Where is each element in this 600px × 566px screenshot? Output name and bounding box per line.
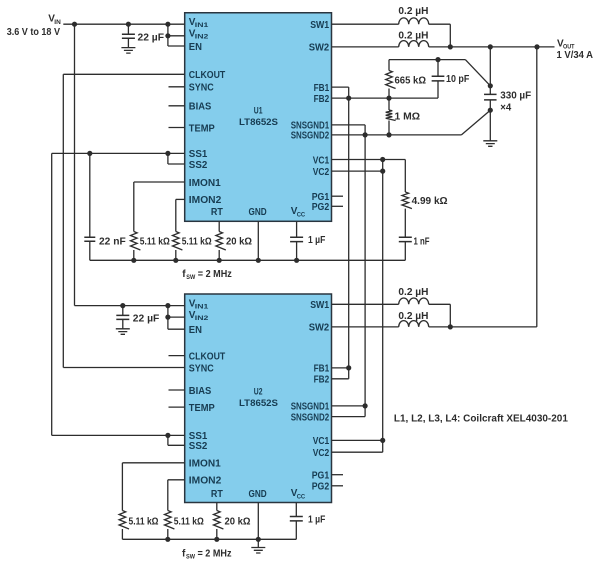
svg-text:SYNC: SYNC xyxy=(189,363,214,374)
svg-text:SW: SW xyxy=(186,274,195,281)
svg-text:FB1: FB1 xyxy=(314,364,330,375)
svg-text:3.6 V to 18 V: 3.6 V to 18 V xyxy=(7,27,61,38)
svg-text:1 V/34 A: 1 V/34 A xyxy=(557,50,594,61)
svg-text:CC: CC xyxy=(297,493,306,500)
svg-text:IN2: IN2 xyxy=(195,315,209,322)
svg-text:IMON1: IMON1 xyxy=(189,459,221,470)
svg-text:5.11 kΩ: 5.11 kΩ xyxy=(174,516,204,527)
svg-text:665 kΩ: 665 kΩ xyxy=(395,76,427,87)
svg-text:0.2 µH: 0.2 µH xyxy=(398,311,428,322)
svg-text:FB1: FB1 xyxy=(314,83,330,94)
svg-text:LT8652S: LT8652S xyxy=(239,398,278,408)
svg-text:PG1: PG1 xyxy=(312,471,330,482)
svg-text:5.11 kΩ: 5.11 kΩ xyxy=(129,516,159,527)
svg-text:TEMP: TEMP xyxy=(189,123,215,134)
svg-text:IN1: IN1 xyxy=(195,304,209,311)
svg-text:RT: RT xyxy=(211,207,223,218)
svg-text:SW2: SW2 xyxy=(309,43,330,54)
svg-text:1 nF: 1 nF xyxy=(414,237,430,248)
svg-text:4.99 kΩ: 4.99 kΩ xyxy=(412,196,448,207)
svg-text:FB2: FB2 xyxy=(314,94,330,105)
svg-text:0.2 µH: 0.2 µH xyxy=(398,287,428,298)
svg-text:1 µF: 1 µF xyxy=(308,514,325,525)
svg-text:SYNC: SYNC xyxy=(189,83,214,94)
svg-text:PG2: PG2 xyxy=(312,202,330,213)
svg-text:GND: GND xyxy=(249,489,267,500)
svg-text:SW1: SW1 xyxy=(310,300,329,311)
svg-text:SNSGND2: SNSGND2 xyxy=(291,131,330,142)
svg-text:10 pF: 10 pF xyxy=(446,74,469,85)
svg-text:IMON1: IMON1 xyxy=(189,178,221,189)
svg-text:SW1: SW1 xyxy=(310,20,329,31)
svg-text:VC1: VC1 xyxy=(313,436,330,447)
svg-text:330 µF: 330 µF xyxy=(500,91,531,102)
svg-text:EN: EN xyxy=(189,325,202,336)
svg-text:BIAS: BIAS xyxy=(189,102,212,113)
svg-text:SNSGND2: SNSGND2 xyxy=(291,412,330,423)
svg-text:L1, L2, L3, L4: Coilcraft XEL4: L1, L2, L3, L4: Coilcraft XEL4030-201 xyxy=(394,413,568,424)
svg-text:IN1: IN1 xyxy=(195,22,209,29)
svg-text:SS2: SS2 xyxy=(189,160,208,171)
svg-text:22 µF: 22 µF xyxy=(133,314,160,325)
svg-text:LT8652S: LT8652S xyxy=(239,117,278,127)
svg-text:FB2: FB2 xyxy=(314,375,330,386)
svg-text:RT: RT xyxy=(211,489,223,500)
svg-text:IN2: IN2 xyxy=(195,34,209,41)
svg-text:5.11 kΩ: 5.11 kΩ xyxy=(182,237,212,248)
svg-text:1 µF: 1 µF xyxy=(308,235,325,246)
svg-text:VC2: VC2 xyxy=(313,448,330,459)
svg-text:0.2 µH: 0.2 µH xyxy=(398,6,428,17)
svg-text:20 kΩ: 20 kΩ xyxy=(226,237,252,248)
svg-text:EN: EN xyxy=(189,42,202,53)
svg-text:IN: IN xyxy=(54,19,61,26)
svg-text:U2: U2 xyxy=(254,387,263,397)
svg-text:5.11 kΩ: 5.11 kΩ xyxy=(140,237,170,248)
svg-text:CC: CC xyxy=(297,211,306,218)
svg-text:IMON2: IMON2 xyxy=(189,195,222,206)
svg-text:SW2: SW2 xyxy=(309,323,330,334)
svg-text:IMON2: IMON2 xyxy=(189,476,222,487)
svg-text:TEMP: TEMP xyxy=(189,403,215,414)
svg-text:0.2 µH: 0.2 µH xyxy=(398,31,428,42)
svg-text:SS1: SS1 xyxy=(189,149,208,160)
svg-text:CLKOUT: CLKOUT xyxy=(189,70,226,81)
svg-text:PG2: PG2 xyxy=(312,482,330,493)
svg-text:VC2: VC2 xyxy=(313,167,330,178)
svg-text:GND: GND xyxy=(249,207,267,218)
svg-text:20 kΩ: 20 kΩ xyxy=(225,516,251,527)
svg-text:CLKOUT: CLKOUT xyxy=(189,351,226,362)
svg-text:= 2 MHz: = 2 MHz xyxy=(198,548,232,559)
svg-text:22 nF: 22 nF xyxy=(99,237,126,248)
svg-text:×4: ×4 xyxy=(500,103,511,114)
svg-text:U1: U1 xyxy=(254,105,263,115)
svg-text:SNSGND1: SNSGND1 xyxy=(291,402,330,413)
svg-text:= 2 MHz: = 2 MHz xyxy=(198,269,232,280)
svg-text:SW: SW xyxy=(186,554,195,561)
svg-text:SS2: SS2 xyxy=(189,441,208,452)
svg-text:22 µF: 22 µF xyxy=(138,32,165,43)
svg-text:VC1: VC1 xyxy=(313,155,330,166)
svg-text:1 MΩ: 1 MΩ xyxy=(395,112,421,123)
svg-text:BIAS: BIAS xyxy=(189,386,212,397)
